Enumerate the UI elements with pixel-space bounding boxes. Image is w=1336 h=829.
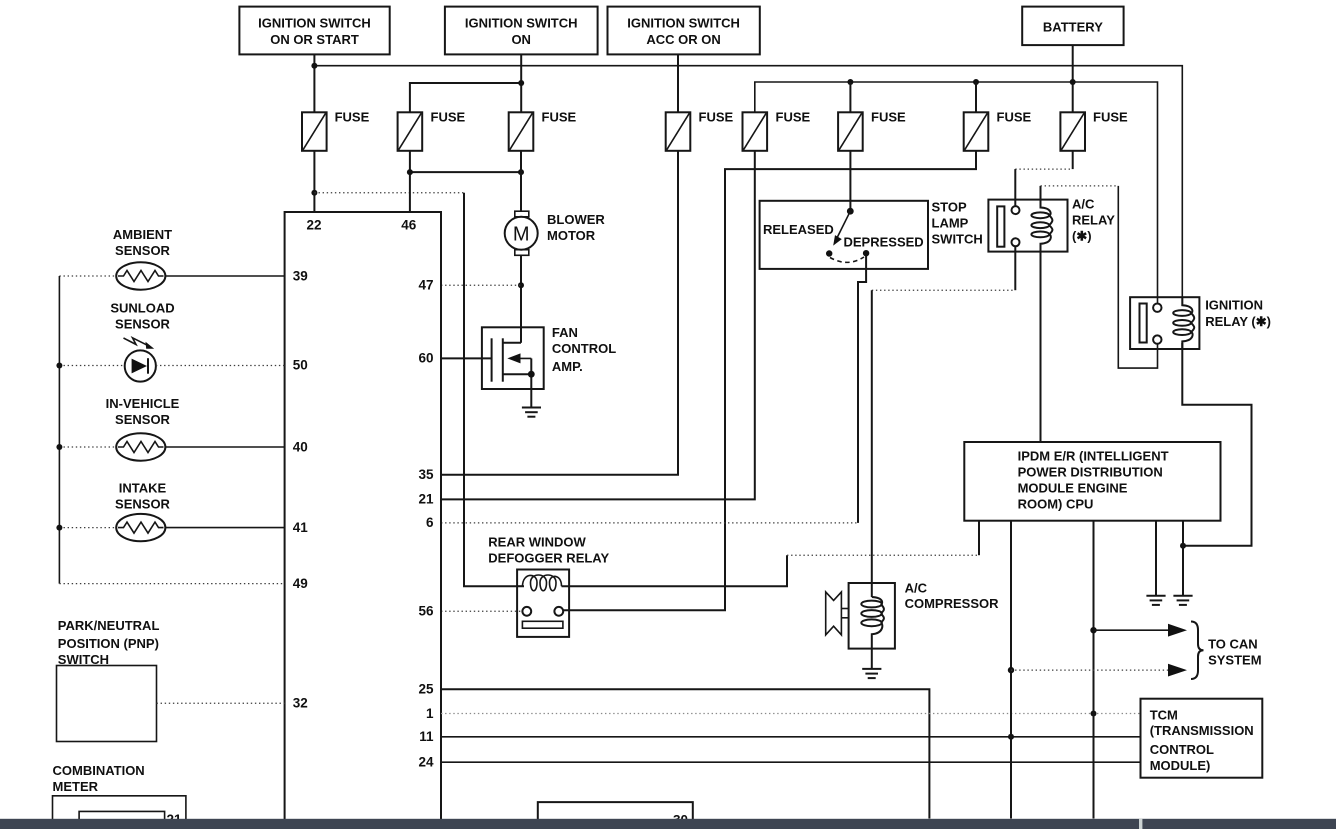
wire: pin 11 to TCM xyxy=(441,736,1141,738)
stop lamp switch S1 box xyxy=(760,201,928,269)
svg-text:AMP.: AMP. xyxy=(552,359,583,374)
A/C compressor pulley symbol xyxy=(826,592,849,635)
wire: fuse F6 down to stop lamp switch common xyxy=(849,151,851,211)
A/C compressor xyxy=(849,583,895,649)
wire: dotted horizontal to IPDM bottom xyxy=(787,554,979,556)
svg-text:11: 11 xyxy=(419,729,434,744)
svg-text:FUSE: FUSE xyxy=(776,110,811,125)
wire: fuse F2 down to pin 46 xyxy=(409,151,411,212)
combination meter box (cut off at bottom) xyxy=(53,796,186,829)
wire: CAN arrow upper xyxy=(1094,629,1171,631)
svg-text:50: 50 xyxy=(293,358,308,373)
svg-text:1: 1 xyxy=(426,706,434,721)
svg-text:ON OR START: ON OR START xyxy=(270,32,359,47)
ground: IPDM 1 xyxy=(1146,596,1165,605)
wire: pin 25 right and down xyxy=(441,689,929,818)
fuse F8 (a/c relay) xyxy=(1060,110,1128,151)
fuse F6 (stop lamp) xyxy=(838,110,906,151)
wire: link between F2 and F3 leads at y=172 xyxy=(410,171,521,173)
wire: CAN arrow lower (dotted) xyxy=(1011,669,1170,671)
svg-text:LAMP: LAMP xyxy=(932,215,969,230)
wire: A/C relay coil top lead up xyxy=(1040,186,1042,200)
svg-text:REAR WINDOW: REAR WINDOW xyxy=(488,535,586,550)
svg-text:MODULE): MODULE) xyxy=(1150,758,1211,773)
svg-text:TCM: TCM xyxy=(1150,707,1178,722)
svg-text:IGNITION SWITCH: IGNITION SWITCH xyxy=(627,16,740,31)
node: junction blower/pin47 xyxy=(518,282,524,288)
svg-text:RELAY (✱): RELAY (✱) xyxy=(1205,314,1271,329)
svg-text:32: 32 xyxy=(293,696,308,711)
ignition relay K2 xyxy=(1130,297,1199,349)
bottom bar separator notch xyxy=(1139,819,1142,829)
bus A: ignition on/start feed across top to ignition relay coil xyxy=(314,66,1182,305)
fuse F1 (ignition on/start) xyxy=(302,110,370,151)
wire: vertical riser x=464 down to defogger relay coil xyxy=(464,193,524,587)
svg-text:POSITION (PNP): POSITION (PNP) xyxy=(58,636,159,651)
svg-text:IGNITION: IGNITION xyxy=(1205,298,1263,313)
A/C control unit main box xyxy=(285,212,441,829)
svg-text:BLOWER: BLOWER xyxy=(547,212,605,227)
bottom dark bar xyxy=(0,819,1336,829)
svg-text:RELAY: RELAY xyxy=(1072,213,1115,228)
svg-text:IGNITION SWITCH: IGNITION SWITCH xyxy=(465,16,578,31)
node: junction busB/box2 wire xyxy=(518,80,524,86)
wire: pin 49 dotted line xyxy=(59,583,284,585)
wire: acc box down to fuse F4 xyxy=(677,54,679,112)
ground: IPDM 2 xyxy=(1173,596,1192,605)
svg-text:FUSE: FUSE xyxy=(542,110,577,125)
node: link/F2 lead xyxy=(407,169,413,175)
wire: A/C relay coil bottom down to IPDM top xyxy=(1040,252,1042,442)
wire: pin 60 to fan control amp gate xyxy=(441,357,492,359)
bus C: battery feed across to fuses and ignition relay contact xyxy=(755,82,1158,304)
svg-text:SUNLOAD: SUNLOAD xyxy=(110,301,174,316)
svg-text:40: 40 xyxy=(293,439,308,454)
svg-text:COMBINATION: COMBINATION xyxy=(53,763,145,778)
svg-text:46: 46 xyxy=(401,218,417,233)
fuse F7 (defogger) xyxy=(964,110,1032,151)
svg-text:56: 56 xyxy=(418,604,434,619)
svg-text:(✱): (✱) xyxy=(1072,228,1092,243)
curly brace for CAN system xyxy=(1191,622,1204,680)
svg-text:PARK/NEUTRAL: PARK/NEUTRAL xyxy=(58,618,160,633)
svg-text:SENSOR: SENSOR xyxy=(115,412,171,427)
wire: fuse F5 down and left to pin 21 xyxy=(441,151,755,500)
wire: fuse F1 down to pin 22 xyxy=(313,151,315,212)
svg-text:FUSE: FUSE xyxy=(699,110,734,125)
wire: pin 24 to TCM xyxy=(441,761,1141,763)
node: in-vehicle/left bus xyxy=(56,444,62,450)
rear window defogger relay K3 xyxy=(517,570,569,637)
wire: ignition on box down to fuse F3 xyxy=(520,54,522,112)
wire: CAN riser 2 from IPDM xyxy=(1010,521,1012,819)
svg-text:35: 35 xyxy=(418,467,434,482)
svg-text:MOTOR: MOTOR xyxy=(547,228,596,243)
svg-text:ACC OR ON: ACC OR ON xyxy=(646,32,720,47)
power source box IGNITION SWITCH ACC OR ON xyxy=(608,7,760,55)
power source box BATTERY xyxy=(1022,7,1123,46)
svg-text:49: 49 xyxy=(293,576,308,591)
node: junction fuse F1 branch xyxy=(311,190,317,196)
ground: fan control amp xyxy=(522,408,541,417)
svg-text:6: 6 xyxy=(426,515,434,530)
svg-text:SWITCH: SWITCH xyxy=(932,232,983,247)
svg-text:IN-VEHICLE: IN-VEHICLE xyxy=(106,396,180,411)
left sensor ground bus vertical xyxy=(58,276,60,584)
wire: ignition on/start box down to fuse F1 xyxy=(313,54,315,112)
svg-text:FAN: FAN xyxy=(552,325,578,340)
svg-text:MODULE ENGINE: MODULE ENGINE xyxy=(1018,481,1128,496)
wire: pin 50 dotted right segment xyxy=(156,365,285,367)
combination meter inner box xyxy=(79,811,165,829)
blower motor M1 xyxy=(505,211,538,255)
svg-text:25: 25 xyxy=(418,682,434,697)
node: CAN-H junction xyxy=(1090,627,1096,633)
wire: defogger coil right lead up to IPDM (dotted section) xyxy=(562,555,788,586)
wire: fuse F4 down and left to pin 35 xyxy=(441,151,678,475)
wire: pin 32 dotted from PNP switch xyxy=(157,702,285,704)
svg-text:FUSE: FUSE xyxy=(871,110,906,125)
node: released contact xyxy=(826,250,832,256)
ground: A/C compressor xyxy=(862,669,881,678)
wire: in-vehicle dotted to left bus xyxy=(59,446,116,448)
wire: blower motor down to fan control amp xyxy=(520,255,522,343)
wire: riser down from dotted link xyxy=(1118,186,1157,368)
node: busC/fuse F6 xyxy=(847,79,853,85)
wire: down to A/C relay contact pin 1 xyxy=(1014,169,1016,206)
svg-text:FUSE: FUSE xyxy=(335,110,370,125)
node: link/F3 lead xyxy=(518,169,524,175)
wire: pin 6 dotted to stop lamp depressed contact xyxy=(441,522,858,524)
fuse F2 xyxy=(398,110,466,151)
power source box IGNITION SWITCH ON xyxy=(445,7,598,55)
svg-text:39: 39 xyxy=(293,268,308,283)
svg-text:SYSTEM: SYSTEM xyxy=(1208,652,1261,667)
wire: dotted link A/C relay coil to ignition relay contact 2 xyxy=(1041,185,1119,187)
svg-text:ON: ON xyxy=(511,32,531,47)
node: busC/battery xyxy=(1070,79,1076,85)
bottom unit box (cut off) xyxy=(538,802,693,829)
svg-text:IPDM E/R (INTELLIGENT: IPDM E/R (INTELLIGENT xyxy=(1018,448,1169,463)
node: intake/left bus xyxy=(56,525,62,531)
svg-text:POWER DISTRIBUTION: POWER DISTRIBUTION xyxy=(1018,465,1163,480)
svg-text:TO CAN: TO CAN xyxy=(1208,636,1258,651)
svg-text:SENSOR: SENSOR xyxy=(115,243,171,258)
switch arm with arrowhead xyxy=(837,211,851,238)
svg-text:FUSE: FUSE xyxy=(1093,110,1128,125)
park/neutral position (PNP) switch box xyxy=(57,666,157,742)
wire: IPDM ground lead 1 xyxy=(1155,521,1157,596)
node: pin1/CAN riser junction xyxy=(1091,711,1097,717)
fuse F3 (blower) xyxy=(509,110,577,151)
wire: pin 1 dotted to TCM xyxy=(441,713,1141,715)
wire: fuse F8 stub down xyxy=(1072,151,1074,169)
dashed travel arc xyxy=(830,257,864,262)
svg-text:SWITCH: SWITCH xyxy=(58,652,109,667)
fuse F5 xyxy=(743,110,811,151)
node: busC/fuse F7 xyxy=(973,79,979,85)
svg-text:CONTROL: CONTROL xyxy=(1150,742,1214,757)
svg-text:FUSE: FUSE xyxy=(997,110,1032,125)
svg-text:FUSE: FUSE xyxy=(431,110,466,125)
svg-text:41: 41 xyxy=(293,520,309,535)
wire: A/C relay contact pin 2 down xyxy=(1014,246,1016,290)
wire: stop lamp depressed contact down to pin 6 line xyxy=(858,255,866,523)
svg-text:47: 47 xyxy=(418,278,433,293)
wire: battery down to fuse F8 xyxy=(1072,45,1074,112)
svg-text:22: 22 xyxy=(306,218,321,233)
svg-text:DEFOGGER RELAY: DEFOGGER RELAY xyxy=(488,551,609,566)
svg-text:60: 60 xyxy=(418,351,433,366)
svg-text:METER: METER xyxy=(53,779,99,794)
svg-text:AMBIENT: AMBIENT xyxy=(113,227,172,242)
wire: intake dotted to left bus xyxy=(59,527,116,529)
power source box IGNITION SWITCH ON OR START xyxy=(239,7,389,55)
wire: IPDM bottom stub to dotted defogger line xyxy=(978,521,980,556)
sunload sensor (photodiode) xyxy=(124,338,156,382)
wire: busC down to fuse F6 xyxy=(849,82,851,112)
svg-text:BATTERY: BATTERY xyxy=(1043,20,1103,35)
wire: compressor to ground xyxy=(871,649,873,669)
svg-text:M: M xyxy=(513,224,530,246)
wire: pin 40 solid segment xyxy=(165,446,284,448)
wire: CAN riser 1 from IPDM xyxy=(1093,521,1095,819)
intake sensor (thermistor) xyxy=(116,514,165,541)
ambient sensor (thermistor) xyxy=(116,262,165,289)
bus B: ignition on feed to fuse F2 xyxy=(410,83,521,112)
svg-text:INTAKE: INTAKE xyxy=(119,480,167,495)
wire: compressor riser down to A/C compressor xyxy=(871,290,873,597)
svg-text:(TRANSMISSION: (TRANSMISSION xyxy=(1150,723,1254,738)
A/C relay K1 xyxy=(988,200,1067,252)
node: pin11/CAN riser junction xyxy=(1008,734,1014,740)
node: depressed contact xyxy=(863,250,869,256)
wire: IPDM ground lead 2 xyxy=(1182,521,1184,596)
node: sunload/left bus xyxy=(56,363,62,369)
IPDM E/R CPU box xyxy=(964,442,1220,521)
node: junction box1/busA xyxy=(311,63,317,69)
svg-text:COMPRESSOR: COMPRESSOR xyxy=(905,596,1000,611)
wire: ignition relay coil bottom to IPDM ground wire xyxy=(1182,343,1251,546)
svg-text:SENSOR: SENSOR xyxy=(115,496,171,511)
svg-text:A/C: A/C xyxy=(905,581,928,596)
node: common terminal xyxy=(847,208,854,215)
svg-text:IGNITION SWITCH: IGNITION SWITCH xyxy=(258,16,371,31)
svg-text:DEPRESSED: DEPRESSED xyxy=(844,235,924,250)
node: junction ignition relay return / IPDM ground wire xyxy=(1180,543,1186,549)
wire: fuse F3 down to blower motor xyxy=(520,151,522,211)
svg-text:A/C: A/C xyxy=(1072,197,1095,212)
TCM box xyxy=(1141,699,1263,778)
wire: dotted link F8 to A/C relay contact feed xyxy=(1015,168,1072,170)
wire: branch from F1 junction toward defogger coil (horizontal dotted) xyxy=(314,192,464,194)
wire: dotted from A/C relay to compressor riser xyxy=(872,289,1016,291)
svg-text:24: 24 xyxy=(418,755,434,770)
svg-text:SENSOR: SENSOR xyxy=(115,317,171,332)
svg-text:21: 21 xyxy=(418,492,434,507)
fuse F4 (acc) xyxy=(666,110,734,151)
svg-text:CONTROL: CONTROL xyxy=(552,341,616,356)
svg-text:STOP: STOP xyxy=(932,200,967,215)
wire: pin 39 solid segment xyxy=(165,275,284,277)
in-vehicle sensor (thermistor) xyxy=(116,433,165,460)
wire: pin 47 dotted to blower junction xyxy=(441,284,521,286)
node: CAN-L junction xyxy=(1008,667,1014,673)
wire: pin 56 dotted to defogger relay contact xyxy=(441,610,522,612)
svg-text:RELEASED: RELEASED xyxy=(763,222,834,237)
wire: pin 41 solid segment xyxy=(165,527,284,529)
svg-text:ROOM) CPU: ROOM) CPU xyxy=(1018,497,1094,512)
wire: busC down to fuse F7 xyxy=(975,82,977,112)
wire: fuse F7 down, left and down to defogger relay contact xyxy=(563,151,976,611)
wire: pin 50 dotted left segment xyxy=(59,365,124,367)
wire: ambient sensor dotted to left bus xyxy=(59,275,116,277)
stop lamp switch internals xyxy=(826,208,869,263)
fan control amp U1 xyxy=(482,327,544,407)
